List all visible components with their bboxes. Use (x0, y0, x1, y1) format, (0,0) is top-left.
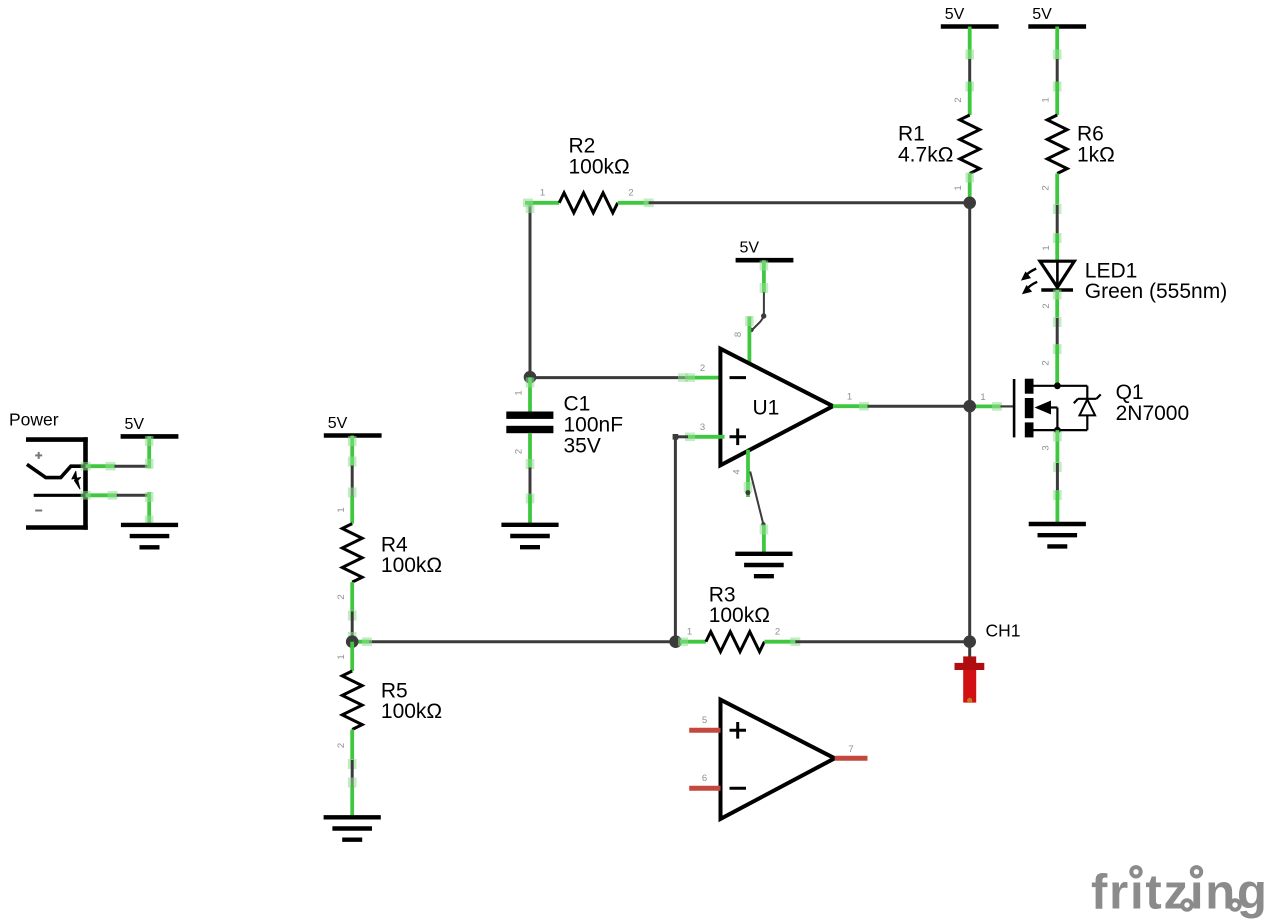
node junction R4/R5 (346, 635, 359, 648)
wire 5V to R1 (968, 59, 971, 82)
capacitor C1 (506, 412, 553, 419)
resistor R5 (342, 671, 362, 730)
LED1 pin 2 (1055, 290, 1059, 318)
wire jack minus to ground (86, 493, 117, 497)
wire main vertical net (968, 203, 971, 642)
op-amp U1 pin 8 power (748, 317, 752, 364)
wire 5V to R4 (351, 466, 354, 497)
transistor Q1 source line (1034, 429, 1088, 431)
svg-text:8: 8 (733, 332, 744, 337)
svg-text:3: 3 (1041, 445, 1052, 450)
svg-text:U1: U1 (753, 397, 780, 420)
wire R4 to junction (351, 611, 354, 641)
resistor R3 pin 1 (680, 640, 706, 644)
op-amp U1 minus sign (730, 376, 747, 379)
ground (power jack) (121, 523, 178, 527)
op-amp second half pin 5 (689, 728, 720, 733)
resistor R4 pin 1 (350, 497, 354, 524)
svg-text:CH1: CH1 (986, 620, 1021, 640)
svg-text:2: 2 (628, 187, 633, 198)
svg-text:4.7kΩ: 4.7kΩ (898, 143, 953, 166)
probe CH1 (963, 656, 976, 670)
svg-text:2: 2 (775, 627, 780, 638)
transistor Q1 gate bar (1013, 379, 1016, 437)
transistor Q1 source pin 3 (1056, 430, 1060, 463)
resistor R1 pin 2 (968, 82, 972, 115)
svg-text:R4: R4 (381, 533, 408, 556)
resistor R1 pin 1 (968, 174, 972, 203)
svg-text:2: 2 (336, 743, 347, 748)
wire R2 to R1 junction (649, 201, 970, 204)
op-amp second half plus sign (730, 729, 747, 732)
transistor Q1 channel bars (1025, 379, 1034, 394)
svg-text:R6: R6 (1077, 123, 1104, 146)
svg-text:100nF: 100nF (564, 414, 624, 437)
resistor R3 (706, 632, 765, 652)
wire U1 pin 4 to ground (750, 472, 763, 526)
svg-text:1: 1 (336, 654, 347, 659)
pin ground below R5 (350, 787, 354, 818)
resistor R1 (960, 115, 980, 174)
wire R3 to CH1 junction (795, 640, 969, 643)
power jack minus terminal (34, 494, 86, 497)
wire R6 to LED1 (1056, 205, 1059, 234)
svg-text:100kΩ: 100kΩ (381, 554, 442, 577)
svg-text:2N7000: 2N7000 (1116, 402, 1190, 425)
power jack minus mark (35, 510, 42, 512)
wire junction to opamp pin 2 (530, 376, 688, 379)
resistor R2 (559, 193, 618, 213)
op-amp U1 output pin 1 (833, 404, 868, 408)
svg-text:2: 2 (953, 97, 964, 102)
power connector J1 body (26, 437, 88, 442)
5V supply (above R4) (324, 433, 382, 438)
LED1 light arrows (1026, 269, 1036, 276)
svg-text:Power: Power (9, 409, 59, 429)
svg-text:100kΩ: 100kΩ (381, 700, 442, 723)
pin 5V power jack (147, 436, 151, 468)
resistor R3 pin 2 (764, 640, 795, 644)
wire opamp plus input corner (675, 435, 688, 438)
ground (below C1) (501, 523, 558, 527)
wire jack plus to 5V (86, 464, 115, 468)
capacitor C1 pin 1 (528, 377, 532, 411)
svg-text:5V: 5V (740, 240, 760, 257)
svg-text:1: 1 (980, 392, 985, 403)
node junction R2/C1/opamp-inv (524, 371, 537, 384)
op-amp U1 triangle (720, 349, 833, 466)
node junction CH1 (963, 635, 976, 648)
op-amp U1 second half triangle (721, 700, 835, 819)
svg-text:Q1: Q1 (1116, 381, 1144, 404)
svg-text:1: 1 (847, 392, 852, 403)
resistor R2 pin 1 (525, 201, 559, 205)
ground (below U1) (735, 552, 792, 556)
svg-text:4: 4 (732, 469, 743, 474)
5V supply (above U1) (736, 258, 794, 263)
svg-text:R1: R1 (898, 123, 925, 146)
op-amp U1 pin 4 power (746, 450, 750, 497)
svg-text:1: 1 (687, 627, 692, 638)
pin 5V above R4 (350, 436, 354, 466)
wire R5 to ground (351, 760, 354, 787)
svg-text:2: 2 (336, 594, 347, 599)
wire CH1 dot to probe (968, 642, 971, 657)
power jack plus mark (35, 454, 42, 456)
ground (below R5) (324, 815, 381, 819)
op-amp U1 pin 2 inverting (688, 376, 725, 380)
svg-text:R5: R5 (381, 679, 408, 702)
svg-text:2: 2 (1041, 360, 1052, 365)
svg-text:1: 1 (1041, 245, 1052, 250)
svg-text:C1: C1 (564, 393, 591, 416)
pin 5V above R6 (1055, 27, 1059, 60)
LED LED1 (1040, 261, 1074, 287)
LED1 pin 1 (1055, 234, 1059, 261)
capacitor C1 pin 2 (528, 433, 532, 467)
wire C1 to ground (529, 468, 532, 496)
svg-text:frıtzıng: frıtzıng (1091, 866, 1269, 920)
transistor Q1 body arrow (1035, 401, 1052, 415)
transistor Q1 drain pin 2 (1055, 345, 1059, 386)
svg-text:1: 1 (1041, 97, 1052, 102)
wire Q1 source to ground (1056, 463, 1059, 491)
svg-text:2: 2 (700, 363, 705, 374)
svg-text:5: 5 (702, 715, 707, 726)
svg-text:1: 1 (514, 390, 525, 395)
resistor R6 pin 1 (1055, 82, 1059, 115)
svg-text:1: 1 (540, 187, 545, 198)
wire U1 output to junction (868, 405, 970, 408)
pin ground below Q1 (1056, 491, 1060, 524)
5V supply (above R6) (1028, 24, 1086, 29)
wire LED1 to Q1 drain (1056, 318, 1059, 345)
op-amp second half minus sign (730, 787, 747, 790)
svg-text:7: 7 (848, 744, 853, 755)
svg-text:3: 3 (700, 422, 705, 433)
svg-text:5V: 5V (328, 415, 348, 432)
svg-text:1kΩ: 1kΩ (1077, 143, 1115, 166)
svg-text:5V: 5V (125, 416, 145, 433)
wire 5V to U1 pin 8 (752, 292, 764, 330)
svg-text:R3: R3 (709, 583, 736, 606)
pin ground power jack (147, 492, 151, 525)
svg-text:6: 6 (702, 773, 707, 784)
svg-text:Green (555nm): Green (555nm) (1085, 280, 1227, 303)
wire corner R2 vertical (529, 203, 532, 377)
transistor Q1 drain line (1034, 385, 1088, 387)
resistor R5 pin 2 (350, 730, 354, 761)
svg-text:R2: R2 (569, 135, 596, 158)
svg-text:5V: 5V (1032, 6, 1052, 23)
wire 5V to R6 (1056, 59, 1059, 82)
resistor R4 (342, 524, 362, 583)
resistor R6 pin 2 (1055, 174, 1059, 206)
5V supply (power jack) (121, 434, 179, 439)
svg-text:100kΩ: 100kΩ (569, 155, 630, 178)
svg-text:2: 2 (514, 449, 525, 454)
node junction opamp output / Q1 gate (963, 400, 976, 413)
svg-text:1: 1 (953, 185, 964, 190)
wire mid horizontal (352, 640, 675, 643)
svg-text:1: 1 (336, 507, 347, 512)
svg-text:35V: 35V (564, 434, 601, 457)
resistor R6 (1047, 115, 1067, 174)
op-amp U1 pin 3 noninverting (688, 435, 725, 439)
op-amp second half pin 6 (689, 786, 720, 791)
transistor Q1 gate pin 1 (975, 404, 1001, 408)
svg-text:5V: 5V (945, 6, 965, 23)
ground (below Q1) (1029, 522, 1086, 526)
resistor R4 pin 2 (350, 582, 354, 611)
power jack lightning bolt (72, 471, 81, 488)
op-amp U1 plus sign (730, 435, 747, 438)
svg-text:100kΩ: 100kΩ (709, 604, 770, 627)
pin ground below C1 (528, 495, 532, 525)
op-amp second half pin 7 (835, 756, 868, 761)
transistor Q1 body diode (1086, 386, 1088, 430)
resistor R2 pin 2 (618, 201, 649, 205)
svg-text:2: 2 (1041, 303, 1052, 308)
node junction plus-net / R3 (669, 635, 682, 648)
pin 5V above R1 (968, 27, 972, 60)
svg-text:2: 2 (1041, 185, 1052, 190)
pin 5V above U1 (762, 260, 766, 292)
pin ground below U1 (762, 525, 766, 554)
5V supply (above R1) (941, 24, 999, 29)
resistor R5 pin 1 (350, 642, 354, 671)
node junction R1/R2 (963, 197, 976, 210)
power jack switch lever (27, 464, 87, 477)
